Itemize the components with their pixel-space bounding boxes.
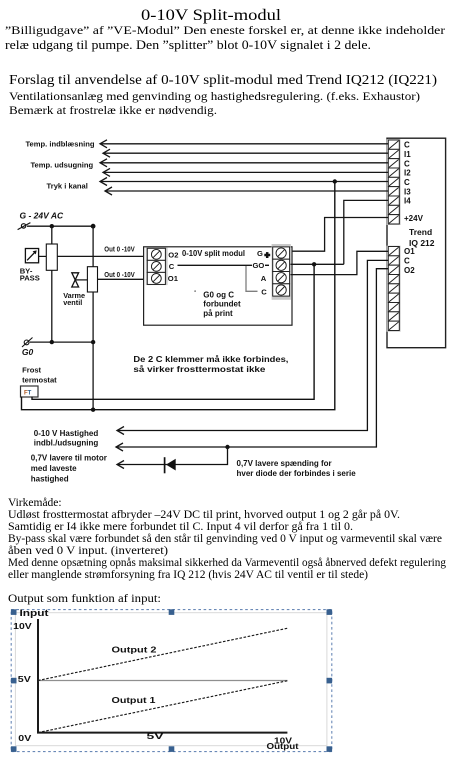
svg-text:Output: Output bbox=[267, 741, 299, 751]
svg-text:PASS: PASS bbox=[20, 274, 40, 283]
svg-text:FT: FT bbox=[24, 391, 32, 397]
svg-text:Ventilationsanlæg med genvindi: Ventilationsanlæg med genvinding og hast… bbox=[9, 91, 420, 103]
svg-text:Virkemåde:: Virkemåde: bbox=[8, 496, 62, 509]
terminal block bottom group (O1 C O2 ...) bbox=[388, 247, 399, 331]
module right strip background bbox=[272, 244, 291, 300]
svg-text:Output som funktion af input:: Output som funktion af input: bbox=[8, 593, 161, 605]
svg-text:I3: I3 bbox=[404, 187, 411, 196]
svg-text:hver diode der forbindes i ser: hver diode der forbindes i serie bbox=[237, 469, 357, 478]
svg-text:Out 0 -10V: Out 0 -10V bbox=[104, 247, 135, 254]
5V gray line bbox=[38, 680, 288, 682]
svg-text:0-10V split modul: 0-10V split modul bbox=[182, 248, 245, 258]
wire bypass drop bbox=[51, 226, 53, 244]
node wireB varme junction bbox=[91, 408, 95, 412]
svg-text:0-10V Split-modul: 0-10V Split-modul bbox=[141, 7, 282, 24]
wire varme down to wireB bbox=[92, 292, 94, 410]
svg-text:relæ udgang til pumpe. Den ”sp: relæ udgang til pumpe. Den ”splitter” bl… bbox=[5, 37, 371, 52]
wire out2 varme to O1 bbox=[98, 278, 148, 280]
svg-text:indbl./udsugning: indbl./udsugning bbox=[34, 439, 99, 448]
svg-text:hastighed: hastighed bbox=[31, 475, 69, 484]
node C net junction bbox=[333, 179, 337, 183]
svg-text:A: A bbox=[261, 274, 267, 283]
output 2 line bbox=[38, 628, 289, 681]
switch symbol G0 bbox=[22, 338, 33, 348]
wire FT left to C net bbox=[22, 182, 335, 410]
selection handles bbox=[11, 609, 332, 752]
chart image light border bbox=[15, 613, 327, 746]
svg-text:I1: I1 bbox=[404, 150, 411, 159]
wire 24VAC bus bbox=[27, 225, 93, 227]
svg-text:termostat: termostat bbox=[22, 375, 57, 384]
svg-text:De 2 C klemmer må ikke forbind: De 2 C klemmer må ikke forbindes, bbox=[133, 355, 288, 364]
svg-text:G0: G0 bbox=[22, 347, 34, 357]
svg-text:Temp. indblæsning: Temp. indblæsning bbox=[25, 139, 94, 148]
svg-text:Forslag til anvendelse af 0-10: Forslag til anvendelse af 0-10V split-mo… bbox=[9, 73, 437, 88]
wire IQ C down to arrow1 bbox=[117, 260, 389, 430]
wire C row 2 bbox=[100, 162, 389, 164]
svg-text:By-pass skal være forbundet så: By-pass skal være forbundet så den står … bbox=[8, 532, 442, 545]
terminal labels top bbox=[404, 141, 424, 224]
svg-text:Trend: Trend bbox=[409, 227, 432, 237]
wire out1 bypass to O2 bbox=[57, 255, 147, 257]
terminal strip background top bbox=[387, 139, 401, 225]
module left strip background bbox=[146, 248, 168, 286]
svg-text:G0 og C: G0 og C bbox=[203, 291, 234, 300]
svg-text:0,7V lavere til motor: 0,7V lavere til motor bbox=[31, 453, 107, 462]
svg-text:Output 2: Output 2 bbox=[112, 645, 157, 655]
svg-text:5V: 5V bbox=[18, 674, 31, 684]
split module box bbox=[144, 247, 292, 325]
svg-text:C: C bbox=[404, 159, 410, 168]
svg-text:forbundet: forbundet bbox=[203, 300, 241, 309]
svg-text:Med denne opsætning opnås maks: Med denne opsætning opnås maksimal sikke… bbox=[8, 556, 446, 569]
svg-text:I4: I4 bbox=[404, 197, 411, 206]
svg-text:ventil: ventil bbox=[63, 298, 82, 307]
svg-text:+24V: +24V bbox=[404, 214, 424, 223]
svg-text:C: C bbox=[261, 287, 267, 296]
x axis bbox=[37, 732, 287, 734]
svg-text:0,7V lavere spænding for: 0,7V lavere spænding for bbox=[237, 459, 332, 468]
wire I2 row bbox=[103, 171, 389, 173]
svg-text:Temp. udsugning: Temp. udsugning bbox=[30, 160, 93, 169]
wire valve to actuator bbox=[75, 279, 87, 281]
selection dashed frame bbox=[11, 610, 332, 752]
wire I1 row bbox=[103, 152, 389, 154]
node varme tap bbox=[91, 224, 96, 229]
switch symbol 24VAC bbox=[18, 223, 31, 230]
svg-text:C: C bbox=[404, 178, 410, 187]
svg-text:Output 1: Output 1 bbox=[112, 695, 156, 705]
wire pot to actuator bbox=[39, 255, 47, 257]
diode D1 bbox=[165, 457, 176, 473]
svg-text:10V: 10V bbox=[13, 621, 32, 631]
wire diode branch bbox=[117, 447, 228, 465]
wire A to O1 bbox=[291, 251, 389, 274]
wire +24V to module G bbox=[291, 218, 389, 252]
wire bypass down to G0 bbox=[51, 270, 53, 342]
node diode branch junction bbox=[225, 445, 229, 449]
svg-text:Frost: Frost bbox=[22, 366, 41, 375]
node G0 bypass junction bbox=[50, 340, 54, 344]
wire I4 to GO net bbox=[344, 200, 389, 264]
module left terminals O2 C O1 bbox=[147, 248, 165, 284]
wire FT right to GO net bbox=[32, 264, 314, 399]
internal wire C to G0 bbox=[178, 264, 253, 266]
svg-text:så virker frosttermostat ikke: så virker frosttermostat ikke bbox=[133, 365, 266, 374]
svg-text:I2: I2 bbox=[404, 169, 411, 178]
svg-text:O1: O1 bbox=[168, 274, 179, 283]
terminal block top group (C I1 C I2 C I3 I4 - +24V) bbox=[388, 140, 399, 224]
node G0 varme junction bbox=[91, 340, 95, 344]
plus symbol at G bbox=[264, 252, 270, 258]
svg-text:Out 0 -10V: Out 0 -10V bbox=[104, 272, 135, 279]
svg-text:G - 24V AC: G - 24V AC bbox=[20, 210, 64, 220]
y axis bbox=[37, 619, 39, 734]
terminal labels bottom bbox=[404, 247, 415, 275]
svg-text:Bemærk at frostrelæ ikke er nø: Bemærk at frostrelæ ikke er nødvendig. bbox=[9, 105, 217, 117]
svg-text:C: C bbox=[404, 257, 410, 266]
varme actuator body bbox=[87, 267, 97, 292]
svg-text:Tryk i kanal: Tryk i kanal bbox=[47, 181, 88, 190]
svg-text:O2: O2 bbox=[404, 266, 415, 275]
stray mark bbox=[194, 290, 196, 292]
controller box Trend IQ212 bbox=[387, 138, 446, 348]
svg-text:GO: GO bbox=[253, 261, 265, 270]
svg-text:”Billigudgave” af ”VE-Modul” D: ”Billigudgave” af ”VE-Modul” Den eneste … bbox=[5, 23, 445, 37]
svg-text:0-10 V Hastighed: 0-10 V Hastighed bbox=[34, 429, 99, 438]
svg-text:C: C bbox=[169, 262, 175, 271]
node bypass tap bbox=[50, 224, 54, 228]
wire G0 bus bbox=[30, 341, 93, 343]
svg-text:med laveste: med laveste bbox=[31, 464, 77, 473]
svg-text:Udløst frosttermostat afbryder: Udløst frosttermostat afbryder –24V DC t… bbox=[8, 508, 400, 521]
by-pass actuator body bbox=[46, 244, 57, 270]
wire IQ O2 down to arrow2 bbox=[116, 269, 389, 447]
svg-text:eller manglende strømforsyning: eller manglende strømforsyning fra IQ 21… bbox=[8, 569, 368, 581]
wire GO line to I4 net bbox=[291, 263, 344, 265]
by-pass potentiometer box bbox=[25, 249, 38, 263]
frost thermostat FT box bbox=[21, 386, 39, 397]
svg-text:Input: Input bbox=[20, 608, 49, 618]
svg-text:5V: 5V bbox=[147, 731, 165, 741]
terminal strip background bottom bbox=[387, 246, 401, 332]
valve symbol varme ventil bbox=[72, 273, 79, 287]
wire I3 row bbox=[105, 190, 389, 192]
output 1 line bbox=[38, 681, 289, 733]
svg-text:O2: O2 bbox=[168, 250, 178, 259]
svg-text:G: G bbox=[257, 249, 263, 258]
svg-text:åben ved 0 V input. (invertere: åben ved 0 V input. (inverteret) bbox=[8, 544, 168, 557]
svg-text:0V: 0V bbox=[18, 733, 31, 743]
svg-text:C: C bbox=[404, 141, 410, 150]
svg-text:Samtidig er I4 ikke mere forbu: Samtidig er I4 ikke mere forbundet til C… bbox=[8, 520, 353, 533]
wire C row 1 with arrow bbox=[100, 143, 389, 145]
svg-text:på print: på print bbox=[203, 309, 233, 318]
module right terminals G G0 A C bbox=[273, 247, 290, 296]
wire varme drop bbox=[92, 226, 94, 267]
wire C row 3 bbox=[100, 181, 389, 183]
svg-text:O1: O1 bbox=[404, 247, 415, 256]
node GO FT junction bbox=[312, 262, 316, 266]
internal gray link to C bbox=[246, 266, 258, 291]
